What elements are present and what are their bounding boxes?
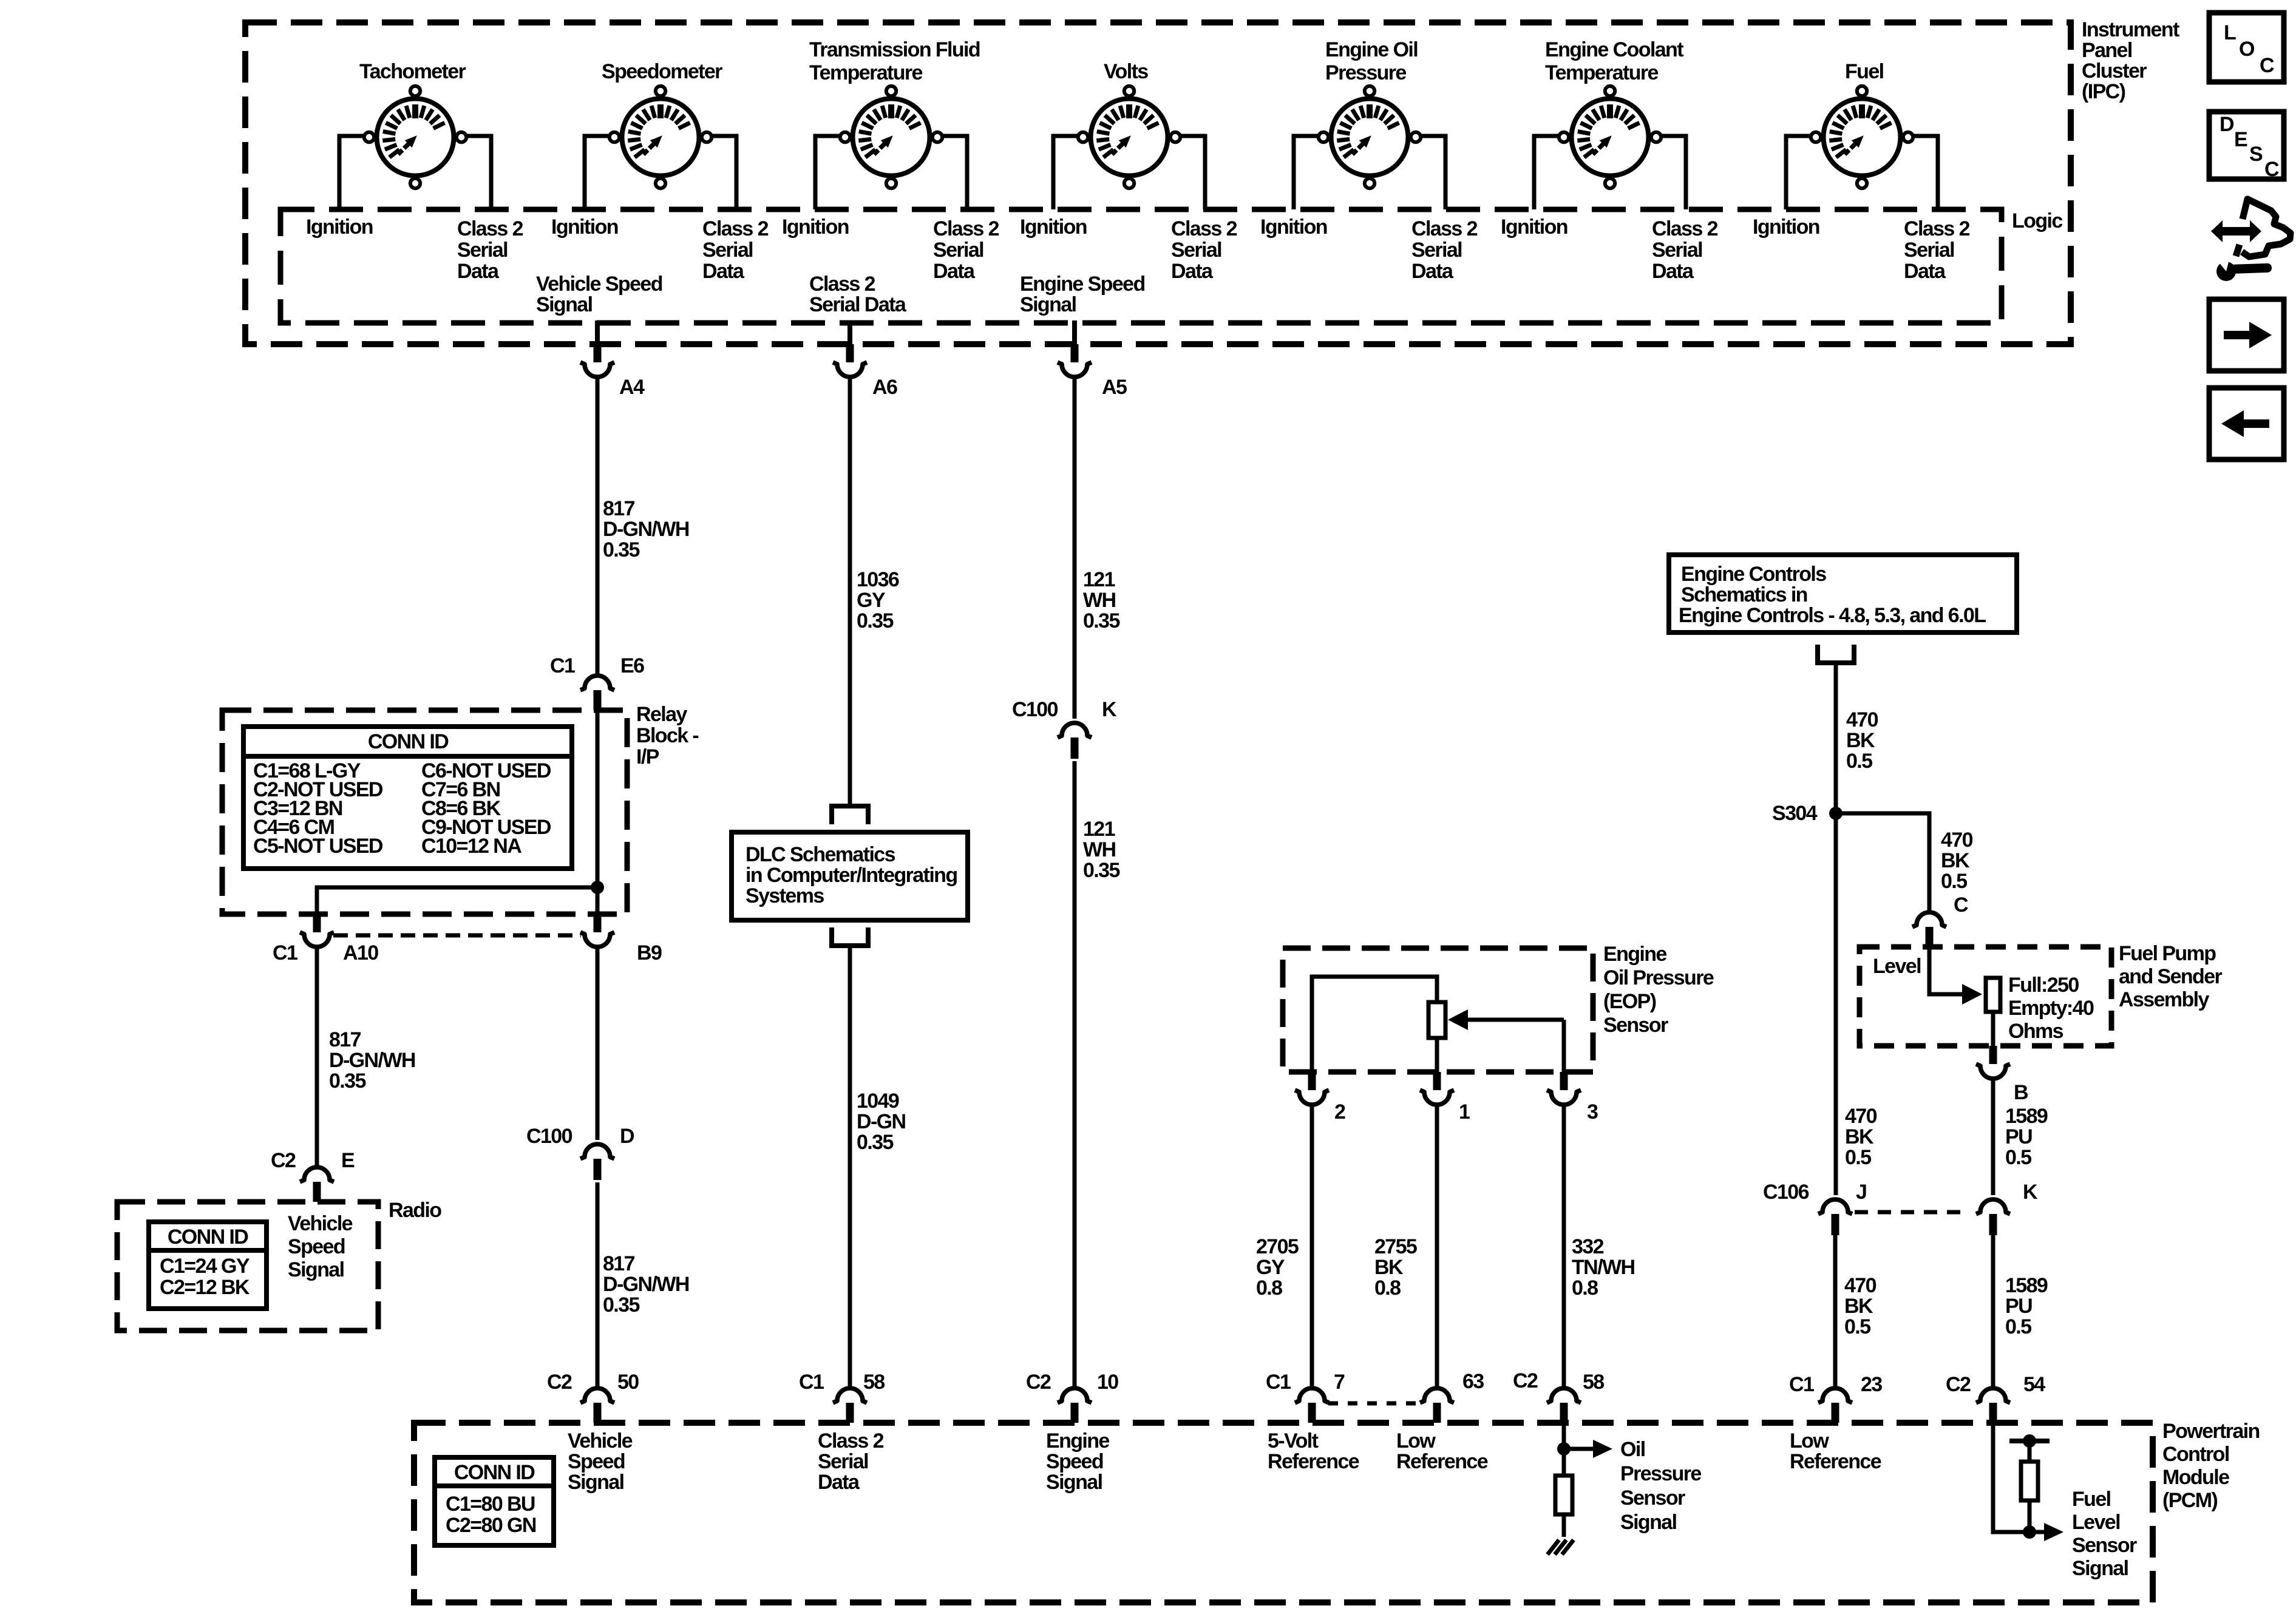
IPC logic inner dashed box <box>280 209 2002 323</box>
svg-text:GY: GY <box>857 589 886 612</box>
svg-text:C2: C2 <box>1026 1371 1051 1394</box>
label Low Reference (pin 23) <box>1790 1429 1881 1473</box>
svg-text:Data: Data <box>1904 260 1946 283</box>
svg-text:121: 121 <box>1083 568 1115 591</box>
svg-text:A6: A6 <box>872 376 897 399</box>
svg-text:K: K <box>2023 1181 2038 1204</box>
icon box DESC <box>2209 112 2284 181</box>
connector C2 pin 50 into PCM <box>580 1388 614 1423</box>
icon box arrow right <box>2209 299 2284 371</box>
svg-text:5-Volt: 5-Volt <box>1268 1429 1319 1453</box>
wires from Tachometer to logic line <box>339 136 491 209</box>
wire 1049 D-GN from DLC to PCM <box>848 946 852 1388</box>
DLC Schematics box <box>732 832 968 920</box>
label wire 1049 D-GN 0.35 <box>857 1090 906 1154</box>
wire branch S304 to fuel sender pin C <box>1836 813 1929 912</box>
svg-text:Speed: Speed <box>1046 1450 1103 1473</box>
fuel sender resistor Full:250 Empty:40 Ohms <box>1986 978 2000 1012</box>
wire resistor to pin 1 <box>1435 1038 1439 1072</box>
svg-text:BK: BK <box>1941 849 1970 872</box>
Powertrain Control Module (PCM) dashed box <box>414 1423 2153 1602</box>
connector pin 3 leaving EOP <box>1547 1072 1581 1105</box>
svg-text:BK: BK <box>1846 729 1875 752</box>
svg-text:Pressure: Pressure <box>1620 1462 1701 1485</box>
label wire 121 WH 0.35 (lower) <box>1083 818 1119 882</box>
svg-text:Low: Low <box>1790 1429 1829 1453</box>
svg-text:1036: 1036 <box>857 568 899 591</box>
label Class 2 Serial Data (IPC pin A6) <box>809 273 907 316</box>
connector pin B leaving Fuel Pump assembly <box>1976 1046 2010 1079</box>
icon box arrow left <box>2209 388 2284 459</box>
svg-text:2755: 2755 <box>1374 1235 1417 1258</box>
svg-text:C1: C1 <box>550 654 575 677</box>
connector C106 face dotted line J-K <box>1855 1210 1970 1215</box>
svg-text:Data: Data <box>1171 260 1214 283</box>
svg-text:121: 121 <box>1083 818 1115 841</box>
connector C100 pin K <box>1058 723 1092 759</box>
svg-text:C1=80 BU: C1=80 BU <box>446 1493 535 1516</box>
svg-text:Data: Data <box>457 260 500 283</box>
wires from Engine Oil Pressure to logic line <box>1294 136 1445 209</box>
label Vehicle Speed Signal (Radio) <box>288 1212 353 1281</box>
svg-text:Panel: Panel <box>2082 39 2132 62</box>
svg-text:Ohms: Ohms <box>2008 1020 2063 1043</box>
label wire 470 BK 0.5 (top) <box>1846 708 1878 773</box>
svg-text:470: 470 <box>1846 708 1878 731</box>
svg-text:Cluster: Cluster <box>2082 59 2147 83</box>
svg-text:K: K <box>1102 698 1117 721</box>
svg-text:Ignition: Ignition <box>782 215 849 239</box>
gauge Tachometer <box>364 86 466 188</box>
wire 121 WH from C100 to PCM <box>1073 761 1077 1388</box>
svg-text:Class 2: Class 2 <box>933 217 999 240</box>
svg-text:0.5: 0.5 <box>1941 870 1967 893</box>
PCM CONN ID table <box>435 1457 554 1545</box>
svg-text:C5-NOT USED: C5-NOT USED <box>253 835 383 858</box>
svg-text:817: 817 <box>603 497 635 520</box>
label wire 817 D-GN/WH 0.35 (A10 branch) <box>329 1028 415 1093</box>
Relay Block - I/P dashed box <box>222 710 627 914</box>
svg-text:(PCM): (PCM) <box>2162 1489 2217 1512</box>
wire 2755 BK from EOP pin 1 to PCM <box>1435 1105 1439 1388</box>
svg-text:A4: A4 <box>619 376 645 399</box>
svg-text:0.8: 0.8 <box>1374 1276 1401 1300</box>
svg-text:Data: Data <box>1652 260 1694 283</box>
svg-text:Sensor: Sensor <box>1603 1014 1668 1037</box>
svg-text:Speed: Speed <box>568 1450 625 1473</box>
svg-text:C2: C2 <box>1946 1373 1971 1396</box>
label wire 121 WH 0.35 (upper) <box>1083 568 1119 632</box>
PCM internal wire from pin 54 down <box>1993 1423 2029 1532</box>
svg-text:Engine Controls - 4.8, 5.3, an: Engine Controls - 4.8, 5.3, and 6.0L <box>1679 604 1986 627</box>
svg-text:BK: BK <box>1374 1256 1404 1279</box>
connector C2 pin 10 into PCM <box>1058 1388 1092 1423</box>
svg-text:Class 2: Class 2 <box>702 217 769 240</box>
wires from Engine Coolant Temperature to logic line <box>1534 136 1686 209</box>
label Transmission Fluid Temperature <box>809 38 980 84</box>
svg-text:0.8: 0.8 <box>1256 1276 1282 1300</box>
label wire 1589 PU 0.5 (below C106 K) <box>2005 1274 2048 1338</box>
svg-text:C: C <box>2264 158 2279 181</box>
connector C2 pin E into Radio <box>300 1167 334 1202</box>
wire 817 D-GN/WH from A4 to Relay Block <box>596 377 600 676</box>
svg-text:Ignition: Ignition <box>1020 215 1087 239</box>
svg-text:Low: Low <box>1396 1429 1436 1453</box>
fuel level pull-up resistor <box>2021 1462 2038 1500</box>
wire 470 BK from C106 J to PCM <box>1833 1235 1838 1388</box>
svg-text:54: 54 <box>2023 1373 2045 1396</box>
svg-text:Data: Data <box>1411 260 1454 283</box>
svg-text:C1: C1 <box>1789 1373 1814 1396</box>
svg-text:Signal: Signal <box>288 1258 344 1281</box>
label wire 2705 GY 0.8 <box>1256 1235 1299 1300</box>
IPC terminal A5 wire through box edges <box>1072 320 1077 347</box>
svg-text:GY: GY <box>1256 1256 1285 1279</box>
svg-text:Oil: Oil <box>1620 1438 1645 1461</box>
svg-text:Assembly: Assembly <box>2119 988 2210 1011</box>
connector C1 face dotted line pins 7-63 <box>1328 1402 1422 1406</box>
svg-text:2: 2 <box>1334 1100 1345 1124</box>
svg-text:S304: S304 <box>1772 802 1818 825</box>
svg-text:Class 2: Class 2 <box>457 217 523 240</box>
svg-text:Serial: Serial <box>933 239 983 262</box>
gauge Transmission Fluid Temperature <box>840 86 942 188</box>
label Class 2 Serial Data (gauge 5) <box>1411 217 1478 283</box>
svg-text:D-GN: D-GN <box>857 1110 906 1133</box>
svg-text:Data: Data <box>933 260 976 283</box>
label 5-Volt Reference <box>1268 1429 1359 1473</box>
svg-text:L: L <box>2224 21 2236 44</box>
svg-text:Speedometer: Speedometer <box>602 60 722 83</box>
gauge Speedometer <box>610 86 712 188</box>
fuel level junction node <box>2023 1525 2036 1539</box>
svg-text:0.5: 0.5 <box>1845 1146 1871 1169</box>
svg-text:D: D <box>620 1125 634 1148</box>
label Relay Block - I/P <box>636 703 698 768</box>
svg-text:Speed: Speed <box>288 1235 345 1258</box>
icon arrows and wrench (diagnostic) <box>2211 199 2291 281</box>
svg-text:0.35: 0.35 <box>603 538 639 561</box>
label Class 2 Serial Data (gauge 2) <box>702 217 769 283</box>
fuel level sensor signal arrow <box>2031 1530 2046 1534</box>
svg-text:Reference: Reference <box>1790 1450 1881 1473</box>
svg-text:TN/WH: TN/WH <box>1572 1256 1634 1279</box>
wire 332 TN/WH from EOP pin 3 to PCM <box>1562 1105 1566 1388</box>
gauge Engine Coolant Temperature <box>1559 86 1661 188</box>
svg-text:Engine: Engine <box>1046 1429 1109 1453</box>
wire branch to A10 <box>317 887 597 914</box>
connector pin C into Fuel Pump assembly <box>1912 912 1946 947</box>
svg-text:0.35: 0.35 <box>1083 859 1119 882</box>
wire 1589 PU from pin B to C106 <box>1991 1079 1995 1195</box>
oil pressure pull-down resistor <box>1555 1476 1572 1514</box>
gauge Fuel <box>1811 86 1913 188</box>
svg-text:3: 3 <box>1587 1100 1598 1124</box>
svg-text:0.35: 0.35 <box>603 1293 639 1317</box>
label Engine Oil Pressure (EOP) Sensor <box>1603 943 1714 1037</box>
svg-text:Engine Speed: Engine Speed <box>1020 273 1145 296</box>
svg-text:Signal: Signal <box>568 1471 624 1494</box>
svg-text:Signal: Signal <box>536 293 593 316</box>
PCM internal wire from pin 58 to oil pressure node <box>1562 1423 1566 1476</box>
svg-text:Signal: Signal <box>1020 293 1076 316</box>
label Class 2 Serial Data (gauge 7) <box>1904 217 1970 283</box>
label Engine Speed Signal (PCM) <box>1046 1429 1109 1494</box>
svg-text:0.35: 0.35 <box>329 1070 365 1093</box>
svg-text:I/P: I/P <box>636 745 659 768</box>
DLC pass-through port (bottom bracket) <box>832 943 868 948</box>
svg-text:CONN ID: CONN ID <box>454 1461 535 1484</box>
svg-text:1049: 1049 <box>857 1090 899 1113</box>
connector C1 pin E6 into Relay Block <box>580 676 614 710</box>
svg-text:O: O <box>2239 38 2255 61</box>
svg-text:E: E <box>341 1149 355 1172</box>
svg-text:Logic: Logic <box>2012 209 2062 232</box>
svg-text:Serial Data: Serial Data <box>809 293 907 316</box>
svg-text:Sensor: Sensor <box>2072 1534 2137 1557</box>
wire resistor to pin B <box>1991 1012 1995 1046</box>
wire 121 WH from A5 to C100 <box>1073 377 1077 719</box>
connector pin 1 leaving EOP <box>1420 1072 1454 1105</box>
svg-text:332: 332 <box>1572 1235 1604 1258</box>
svg-text:BK: BK <box>1844 1295 1873 1318</box>
svg-text:Empty:40: Empty:40 <box>2008 997 2094 1020</box>
svg-text:470: 470 <box>1844 1274 1877 1297</box>
svg-text:Serial: Serial <box>818 1450 868 1473</box>
svg-text:C: C <box>1954 893 1968 917</box>
svg-text:PU: PU <box>2005 1295 2032 1318</box>
label Powertrain Control Module (PCM) <box>2162 1420 2260 1512</box>
label Vehicle Speed Signal (IPC pin A4) <box>536 273 662 316</box>
svg-text:B9: B9 <box>637 941 662 964</box>
svg-text:Engine Oil: Engine Oil <box>1325 38 1418 61</box>
svg-text:C2: C2 <box>271 1149 296 1172</box>
svg-text:Engine Coolant: Engine Coolant <box>1545 38 1683 61</box>
wire 1589 PU from C106 K to PCM <box>1991 1235 1995 1388</box>
svg-text:Ignition: Ignition <box>1753 215 1819 239</box>
svg-text:0.35: 0.35 <box>1083 609 1119 632</box>
svg-text:2705: 2705 <box>1256 1235 1299 1258</box>
svg-text:E: E <box>2234 128 2247 151</box>
svg-text:Ignition: Ignition <box>306 215 373 239</box>
svg-text:0.35: 0.35 <box>857 1131 893 1154</box>
svg-text:Ignition: Ignition <box>551 215 618 239</box>
gauge Volts <box>1078 86 1180 188</box>
svg-text:Radio: Radio <box>389 1199 441 1222</box>
svg-text:D-GN/WH: D-GN/WH <box>603 1273 689 1296</box>
wires from Transmission Fluid Temperature to logic line <box>815 136 967 209</box>
connector C2 pin 54 into PCM <box>1976 1388 2010 1423</box>
svg-text:0.5: 0.5 <box>2005 1315 2031 1338</box>
connector pin A5 <box>1058 344 1092 377</box>
svg-text:0.35: 0.35 <box>857 609 893 632</box>
Radio dashed box <box>117 1202 378 1331</box>
svg-text:Serial: Serial <box>1904 239 1954 262</box>
svg-text:C106: C106 <box>1763 1181 1809 1204</box>
svg-text:Class 2: Class 2 <box>818 1429 884 1453</box>
label Fuel Pump and Sender Assembly <box>2119 942 2223 1011</box>
label Engine Speed Signal (IPC pin A5) <box>1020 273 1145 316</box>
connector C1 pin 23 into PCM <box>1818 1388 1852 1423</box>
svg-text:E6: E6 <box>620 654 644 677</box>
wire 817 D-GN/WH from B9 to C100 <box>596 947 600 1140</box>
label DLC Schematics in Computer/Integrating Systems <box>746 843 957 907</box>
svg-text:Relay: Relay <box>636 703 687 726</box>
svg-text:Full:250: Full:250 <box>2008 974 2079 997</box>
svg-text:S: S <box>2249 143 2263 166</box>
connector C1 pin 58 into PCM <box>833 1388 867 1423</box>
svg-text:BK: BK <box>1845 1125 1874 1148</box>
svg-text:(IPC): (IPC) <box>2082 80 2125 103</box>
EOP wiper arrow <box>1466 1018 1564 1022</box>
svg-text:Tachometer: Tachometer <box>359 60 466 83</box>
connector pin 2 leaving EOP <box>1295 1072 1329 1105</box>
wires from Volts to logic line <box>1053 136 1205 209</box>
svg-text:Signal: Signal <box>2072 1557 2128 1580</box>
svg-text:0.5: 0.5 <box>1846 750 1872 773</box>
svg-text:C1: C1 <box>273 941 297 964</box>
svg-text:C1=24 GY: C1=24 GY <box>160 1255 250 1278</box>
svg-text:CONN ID: CONN ID <box>168 1225 248 1249</box>
svg-text:Serial: Serial <box>702 239 753 262</box>
connector C1 pin 7 into PCM <box>1295 1388 1329 1423</box>
svg-text:63: 63 <box>1462 1370 1484 1393</box>
svg-text:C100: C100 <box>1012 698 1058 721</box>
svg-text:Data: Data <box>818 1471 860 1494</box>
svg-text:Temperature: Temperature <box>1545 61 1659 84</box>
label Class 2 Serial Data (PCM) <box>818 1429 884 1494</box>
svg-text:7: 7 <box>1334 1371 1345 1394</box>
svg-text:C2=80 GN: C2=80 GN <box>446 1514 536 1537</box>
svg-text:and Sender: and Sender <box>2119 965 2223 988</box>
label wire 1036 GY 0.35 <box>857 568 899 632</box>
svg-text:Ignition: Ignition <box>1260 215 1327 239</box>
label Vehicle Speed Signal (PCM) <box>568 1429 633 1494</box>
supply junction node <box>2023 1434 2036 1448</box>
svg-text:D-GN/WH: D-GN/WH <box>603 518 689 541</box>
svg-text:817: 817 <box>329 1028 361 1051</box>
IPC terminal A4 wire through box edges <box>595 320 600 347</box>
Engine Controls Schematics box <box>1669 555 2017 632</box>
svg-text:C1: C1 <box>799 1371 824 1394</box>
svg-text:C1: C1 <box>1266 1371 1291 1394</box>
svg-text:Class 2: Class 2 <box>809 273 875 296</box>
wire 470 BK from S304 to C106 <box>1834 813 1838 1195</box>
IPC terminal A6 wire through box edges <box>847 320 852 347</box>
svg-text:58: 58 <box>1583 1371 1604 1394</box>
label Class 2 Serial Data (gauge 4) <box>1171 217 1237 283</box>
label wire 1589 PU 0.5 (above C106 K) <box>2005 1105 2048 1169</box>
svg-text:Serial: Serial <box>1652 239 1702 262</box>
svg-text:470: 470 <box>1845 1105 1877 1128</box>
svg-text:(EOP): (EOP) <box>1603 990 1656 1013</box>
svg-text:0.5: 0.5 <box>1844 1315 1870 1338</box>
svg-text:Module: Module <box>2162 1466 2229 1489</box>
svg-text:C2: C2 <box>1513 1369 1538 1392</box>
svg-text:23: 23 <box>1861 1373 1882 1396</box>
svg-text:Vehicle: Vehicle <box>288 1212 353 1235</box>
svg-text:0.5: 0.5 <box>2005 1146 2031 1169</box>
Radio CONN ID table <box>149 1222 267 1309</box>
wires from Fuel to logic line <box>1786 136 1938 209</box>
gauge Engine Oil Pressure <box>1319 86 1421 188</box>
svg-text:Reference: Reference <box>1396 1450 1488 1473</box>
svg-text:470: 470 <box>1941 829 1973 852</box>
svg-text:Vehicle Speed: Vehicle Speed <box>536 273 662 296</box>
svg-text:Oil Pressure: Oil Pressure <box>1603 966 1714 989</box>
svg-text:Signal: Signal <box>1046 1471 1102 1494</box>
svg-text:1589: 1589 <box>2005 1105 2048 1128</box>
label wire 470 BK 0.5 (below C106 J) <box>1844 1274 1877 1338</box>
svg-text:WH: WH <box>1083 838 1115 861</box>
wire 1036 GY from A6 to DLC <box>848 377 852 806</box>
svg-text:Serial: Serial <box>1171 239 1221 262</box>
svg-text:Serial: Serial <box>457 239 508 262</box>
svg-text:Engine Controls: Engine Controls <box>1681 563 1826 586</box>
wire 470 BK from Engine Controls to S304 <box>1834 663 1838 813</box>
svg-text:0.8: 0.8 <box>1572 1276 1598 1300</box>
wire wiper to pin 3 <box>1562 1020 1566 1072</box>
label Full:250 Empty:40 Ohms <box>2008 974 2094 1043</box>
connector C106 pin J <box>1818 1199 1852 1235</box>
svg-text:Control: Control <box>2162 1443 2229 1466</box>
svg-text:C: C <box>2260 54 2274 77</box>
svg-text:1589: 1589 <box>2005 1274 2048 1297</box>
connector pin A10 (C1) leaving Relay Block <box>300 914 334 947</box>
oil pressure sensor signal arrow <box>1566 1447 1595 1451</box>
svg-text:C100: C100 <box>526 1125 572 1148</box>
Relay Block CONN ID table <box>243 727 572 869</box>
connector pin B9 leaving Relay Block <box>580 914 614 947</box>
connector C100 pin D <box>580 1144 614 1180</box>
connector C106 pin K <box>1976 1199 2010 1235</box>
svg-text:Sensor: Sensor <box>1620 1486 1685 1510</box>
svg-text:Class 2: Class 2 <box>1411 217 1478 240</box>
oil pressure junction node <box>1557 1442 1571 1456</box>
svg-text:D: D <box>2220 113 2234 136</box>
svg-text:Powertrain: Powertrain <box>2162 1420 2260 1443</box>
svg-text:Data: Data <box>702 260 745 283</box>
svg-text:Level: Level <box>2072 1511 2120 1534</box>
label Instrument Panel Cluster (IPC) <box>2082 18 2179 103</box>
svg-text:CONN ID: CONN ID <box>368 730 449 753</box>
svg-text:C2=12 BK: C2=12 BK <box>160 1276 250 1299</box>
svg-text:Temperature: Temperature <box>809 61 923 84</box>
supply rail bar <box>2009 1439 2050 1443</box>
label Class 2 Serial Data (gauge 6) <box>1652 217 1718 283</box>
svg-text:Schematics in: Schematics in <box>1681 583 1807 606</box>
svg-text:C2: C2 <box>547 1371 572 1394</box>
svg-text:Instrument: Instrument <box>2082 18 2179 41</box>
label Engine Controls Schematics in Engine Controls - 4.8, 5.3, and 6.0L <box>1679 563 1986 627</box>
connector C1 face dotted line A10-B9 <box>333 934 581 938</box>
label wire 817 D-GN/WH 0.35 (upper) <box>603 497 689 561</box>
svg-text:Ignition: Ignition <box>1501 215 1567 239</box>
label wire 817 D-GN/WH 0.35 (lower) <box>603 1252 689 1317</box>
junction node in Relay Block <box>591 881 604 894</box>
svg-text:Pressure: Pressure <box>1325 61 1406 84</box>
svg-text:Fuel Pump: Fuel Pump <box>2119 942 2216 965</box>
label wire 332 TN/WH 0.8 <box>1572 1235 1634 1300</box>
svg-text:C10=12 NA: C10=12 NA <box>421 835 521 858</box>
label wire 2755 BK 0.8 <box>1374 1235 1417 1300</box>
splice node S304 <box>1829 807 1843 820</box>
label Low Reference (pin 63) <box>1396 1429 1488 1473</box>
connector pin A4 <box>580 344 614 377</box>
svg-text:Serial: Serial <box>1411 239 1462 262</box>
svg-text:B: B <box>2014 1081 2028 1104</box>
svg-text:Engine: Engine <box>1603 943 1666 966</box>
